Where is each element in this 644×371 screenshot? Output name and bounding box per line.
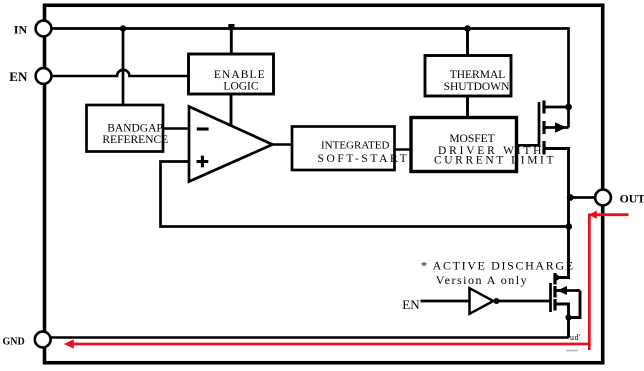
svg-text:MOSFET: MOSFET [449, 133, 494, 145]
svg-text:INTEGRATED: INTEGRATED [321, 140, 389, 152]
svg-text:SHUTDOWN: SHUTDOWN [444, 81, 510, 93]
svg-text:* ACTIVE DISCHARGE: * ACTIVE DISCHARGE [421, 259, 575, 273]
svg-text:REFERENCE: REFERENCE [102, 134, 168, 146]
svg-text:THERMAL: THERMAL [450, 69, 506, 81]
svg-text:IN: IN [14, 23, 28, 37]
svg-text:BANDGAP: BANDGAP [107, 123, 163, 135]
svg-text:OUT: OUT [620, 192, 644, 206]
svg-text:EN: EN [402, 297, 420, 312]
svg-text:GND: GND [3, 336, 25, 347]
svg-text:LOGIC: LOGIC [223, 80, 258, 92]
svg-text:SOFT-START: SOFT-START [318, 153, 410, 165]
svg-text:CURRENT LIMIT: CURRENT LIMIT [434, 154, 556, 166]
svg-text:ud': ud' [570, 333, 581, 342]
svg-text:ENABLE: ENABLE [214, 69, 266, 81]
svg-text:EN: EN [9, 69, 28, 84]
svg-text:Version A only: Version A only [436, 273, 528, 287]
